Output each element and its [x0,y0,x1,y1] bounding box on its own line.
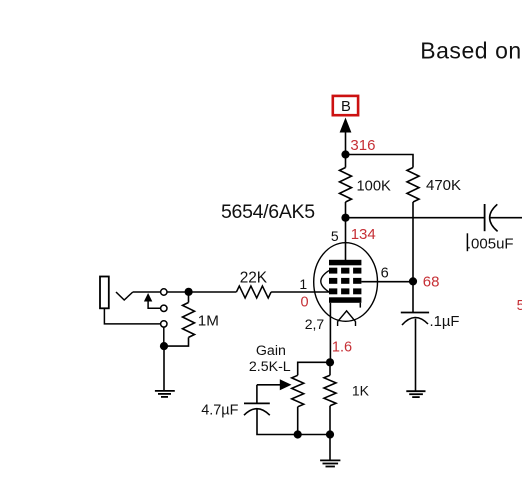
capacitor 4.7uF [201,402,269,418]
svg-text:134: 134 [351,226,376,243]
svg-text:1.6: 1.6 [332,339,352,355]
svg-text:5: 5 [517,298,522,314]
jack terminal circle 3 [161,321,167,327]
wire to cathode ground [329,435,331,460]
input wire tip to terminal [133,291,161,293]
node cathode (dot) [326,358,334,366]
svg-text:2.5K-L: 2.5K-L [249,359,291,375]
ground (input) [155,391,175,397]
B+ terminal box B [333,96,358,115]
svg-text:22K: 22K [240,270,268,287]
svg-text:.005uF: .005uF [467,235,514,252]
svg-text:1: 1 [299,276,307,292]
tube envelope [314,243,378,322]
svg-text:5: 5 [331,228,339,244]
resistor 100K [340,155,392,219]
resistor 1M [164,292,219,346]
wire terminal to grid [167,291,236,293]
svg-text:1M: 1M [198,313,219,330]
plate wire into tube [345,218,347,260]
svg-text:Based on: Based on [420,38,522,64]
wiper wire down [256,385,258,404]
grid side connector arc [321,271,329,292]
svg-text:68: 68 [423,274,440,291]
ground (bypass cap) [406,391,425,397]
plate wire to output cap [346,217,485,219]
svg-text:100K: 100K [357,179,392,195]
cathode wire [329,303,331,363]
B+ arrow [340,118,352,156]
jack body [100,277,109,309]
ground (cathode) [320,460,340,466]
svg-text:.1µF: .1µF [430,314,460,330]
potentiometer wiper arrow [257,379,292,390]
tube grid row 1 [329,268,361,274]
jack terminal circle 1 [161,289,167,295]
tube cathode bar [329,297,361,303]
resistor 22K [236,270,329,299]
wire terminal3 to ground node [163,327,165,346]
svg-text:470K: 470K [426,177,461,194]
node plate (dot) [341,214,349,222]
svg-text:Gain: Gain [256,343,286,359]
node 1K bottom (dot) [326,430,334,438]
svg-text:0: 0 [301,294,309,310]
wire cathode node to pot [298,362,330,375]
jack tip contact [116,292,133,300]
node pot bottom (dot) [294,430,302,438]
node B+ (dot) [341,150,349,158]
pin 6 wire [361,281,413,283]
resistor 1K [324,362,370,434]
node screen (dot) [409,277,417,285]
svg-text:316: 316 [350,137,375,154]
capacitor .1uF [401,313,460,331]
svg-text:2,7: 2,7 [305,316,325,332]
svg-text:B: B [341,99,351,115]
svg-text:4.7µF: 4.7µF [201,402,238,418]
switch arrow [144,293,161,308]
wire screen to bypass cap [412,281,414,312]
wire cap to ground [415,319,417,391]
tube grid row 3 [329,288,361,294]
tube plate bar [329,260,361,266]
svg-text:1K: 1K [352,382,370,398]
tube grid row 2 [329,278,361,284]
heater filament [338,311,356,326]
wire B+ to 470K top [346,155,414,168]
capacitor .005uF [467,204,522,252]
cathode bar tick [359,303,361,308]
wire cap to bottom rail [257,409,330,434]
jack sleeve wire [104,308,160,324]
jack terminal circle 2 [161,305,167,311]
svg-text:5654/6AK5: 5654/6AK5 [221,201,315,223]
potentiometer 2.5K-L [249,343,304,435]
svg-text:6: 6 [381,266,389,282]
node input ground (dot) [160,342,168,350]
node input (dot) [185,288,193,296]
wire node to input ground [163,346,165,390]
resistor 470K [407,168,461,282]
